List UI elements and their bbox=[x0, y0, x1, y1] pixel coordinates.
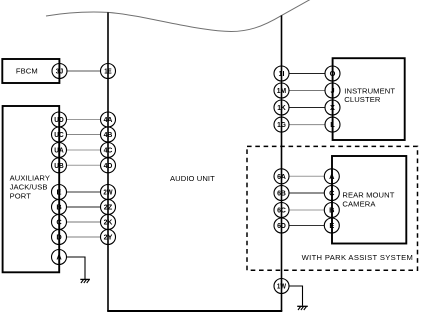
pin A camera bbox=[324, 169, 339, 184]
pin 1G bbox=[274, 117, 289, 132]
wire UB to 4D bbox=[66, 164, 101, 166]
wire B to 2Z bbox=[66, 206, 101, 208]
wire E to 2W bbox=[66, 191, 101, 193]
pin 4D bbox=[101, 158, 116, 173]
rear mount camera box bbox=[332, 156, 406, 244]
with park assist system dashed box bbox=[247, 146, 418, 270]
pin 1K bbox=[274, 100, 289, 115]
svg-text:WITH PARK ASSIST SYSTEM: WITH PARK ASSIST SYSTEM bbox=[302, 253, 414, 262]
pin C bbox=[52, 215, 67, 230]
audio unit U1 box bbox=[107, 12, 282, 311]
pin B bbox=[52, 200, 67, 215]
wire 6A to A bbox=[289, 175, 326, 177]
wire harness break squiggle bbox=[46, 0, 311, 32]
pin 6D bbox=[274, 218, 289, 233]
pin 6A bbox=[274, 169, 289, 184]
pin 1W bbox=[274, 279, 289, 294]
wire 1W to ground bbox=[289, 286, 303, 306]
pin L bbox=[325, 117, 340, 132]
pin E camera bbox=[324, 218, 339, 233]
pin UA bbox=[52, 143, 67, 158]
wire 1I to O bbox=[289, 73, 326, 75]
pin X bbox=[325, 100, 340, 115]
wire 3J to 1E bbox=[67, 70, 102, 72]
svg-text:CLUSTER: CLUSTER bbox=[344, 95, 381, 104]
wire 6B to C bbox=[289, 192, 326, 194]
FBCM box bbox=[2, 59, 59, 83]
pin 4C bbox=[101, 143, 116, 158]
pin 2K bbox=[101, 215, 116, 230]
svg-text:FBCM: FBCM bbox=[16, 66, 38, 75]
wire 1G to L bbox=[289, 124, 326, 126]
pin B camera bbox=[324, 203, 339, 218]
pin 1E bbox=[101, 64, 116, 79]
ground G1 bbox=[80, 279, 90, 283]
wire 6D to E bbox=[289, 225, 326, 227]
wire C to 2K bbox=[66, 221, 101, 223]
pin O bbox=[325, 66, 340, 81]
instrument cluster box bbox=[333, 58, 405, 140]
svg-text:PORT: PORT bbox=[10, 192, 32, 201]
pin 1M bbox=[274, 83, 289, 98]
wire D to 2Y bbox=[66, 236, 101, 238]
pin J bbox=[325, 83, 340, 98]
pin C camera bbox=[324, 186, 339, 201]
pin 1I bbox=[274, 66, 289, 81]
pin UB bbox=[52, 158, 67, 173]
wire 6C to B bbox=[289, 209, 326, 211]
pin 4B bbox=[101, 127, 116, 142]
wire 1K to X bbox=[289, 107, 326, 109]
pin A bbox=[52, 250, 67, 265]
pin D bbox=[52, 230, 67, 245]
svg-text:CAMERA: CAMERA bbox=[342, 199, 376, 208]
wire pin A to ground bbox=[66, 257, 85, 279]
pin 2W bbox=[101, 185, 116, 200]
svg-text:AUXILIARY: AUXILIARY bbox=[10, 173, 50, 182]
pin 2Z bbox=[101, 200, 116, 215]
auxiliary jack/USB port box bbox=[3, 106, 60, 272]
pin 3J bbox=[52, 64, 67, 79]
pin 4A bbox=[101, 112, 116, 127]
wire UA to 4C bbox=[66, 149, 101, 151]
svg-text:AUDIO UNIT: AUDIO UNIT bbox=[170, 174, 215, 183]
pin UC bbox=[52, 127, 67, 142]
svg-text:JACK/USB: JACK/USB bbox=[10, 183, 48, 192]
wire 1M to J bbox=[289, 90, 326, 92]
pin 6B bbox=[274, 186, 289, 201]
pin 2Y bbox=[101, 230, 116, 245]
pin 6C bbox=[274, 203, 289, 218]
pin E bbox=[52, 185, 67, 200]
ground G2 bbox=[297, 306, 308, 310]
svg-text:REAR MOUNT: REAR MOUNT bbox=[342, 191, 394, 200]
pin UD bbox=[52, 112, 67, 127]
wire UC to 4B bbox=[66, 134, 101, 136]
wire UD to 4A bbox=[66, 119, 101, 121]
